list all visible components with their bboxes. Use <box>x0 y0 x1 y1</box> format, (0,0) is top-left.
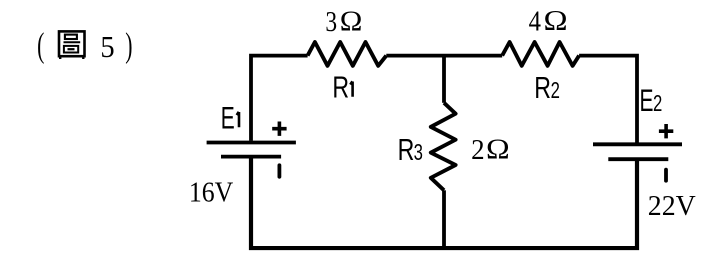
svg-text:22V: 22V <box>648 191 696 223</box>
battery E1 positive plate (long) <box>207 141 296 145</box>
label: battery designator E1 <box>221 100 235 135</box>
wire: left branch from E1 negative plate down to bottom-left corner and bottom wire <box>251 157 637 248</box>
label: R3 value digit 2 <box>471 134 484 166</box>
battery E2 positive plate (long) <box>593 142 682 146</box>
label: resistor designator R1 <box>332 69 349 104</box>
E1 plus sign <box>272 122 286 136</box>
svg-text:2: 2 <box>551 78 560 103</box>
resistor R3 <box>431 103 456 191</box>
label: figure caption "( 圖 5 )" left parenthesis <box>37 26 44 64</box>
label: battery designator E2 <box>640 83 654 118</box>
svg-text:R: R <box>398 132 415 167</box>
E2 minus mark (vertical tick) <box>664 170 668 181</box>
resistor R2 <box>502 42 579 66</box>
label: R1 subscript 1 (drawn) <box>350 81 352 96</box>
svg-text:E: E <box>221 100 235 135</box>
svg-text:(: ( <box>37 26 44 64</box>
wire: top-left corner from E1 positive plate up and right to R1 <box>251 56 308 141</box>
svg-text:3: 3 <box>325 5 337 38</box>
svg-text:R: R <box>534 70 551 105</box>
label: resistor designator R3 <box>398 132 415 167</box>
wire: middle branch from top wire down to R3 <box>442 56 446 103</box>
svg-text:Ω: Ω <box>544 5 568 37</box>
E1 minus mark (vertical tick) <box>277 165 281 177</box>
label: E2 voltage 22V <box>648 191 696 223</box>
label: R2 value digit 4 <box>529 5 542 37</box>
resistor R1 <box>308 42 387 66</box>
battery E2 negative plate (short) <box>608 157 668 161</box>
battery E1 negative plate (short) <box>221 155 281 159</box>
wire: top middle between R1 and R2 through node A <box>386 54 502 58</box>
label: R2 value unit Ω <box>544 5 568 37</box>
label: R3 value unit Ω <box>486 133 510 165</box>
label: E2 subscript 2 <box>653 92 662 117</box>
label: figure caption character 圖 (drawn) <box>59 31 85 59</box>
svg-text:E: E <box>640 83 654 118</box>
label: R2 subscript 2 <box>551 78 560 103</box>
svg-text:2: 2 <box>471 134 484 166</box>
svg-text:R: R <box>332 69 349 104</box>
label: R1 value digit 3 <box>325 5 337 38</box>
label: figure caption "5" <box>100 30 114 64</box>
svg-text:5: 5 <box>100 30 114 64</box>
wire: middle branch from R3 down to bottom wire node B <box>442 190 446 248</box>
E2 plus sign <box>659 124 673 138</box>
svg-text:Ω: Ω <box>486 133 510 165</box>
label: figure caption right parenthesis <box>125 26 132 64</box>
svg-text:3: 3 <box>414 140 423 165</box>
label: E1 subscript 1 (drawn) <box>237 112 239 127</box>
label: R1 value unit Ω <box>340 6 363 37</box>
svg-text:): ) <box>125 26 132 64</box>
label: R3 subscript 3 <box>414 140 423 165</box>
wire: top-right corner from R2 down to E2 positive plate <box>579 56 637 144</box>
svg-text:2: 2 <box>653 92 662 117</box>
label: resistor designator R2 <box>534 70 551 105</box>
svg-text:Ω: Ω <box>340 6 363 37</box>
svg-text:16V: 16V <box>189 176 234 208</box>
label: E1 voltage 16V <box>189 176 234 208</box>
svg-text:4: 4 <box>529 5 542 37</box>
